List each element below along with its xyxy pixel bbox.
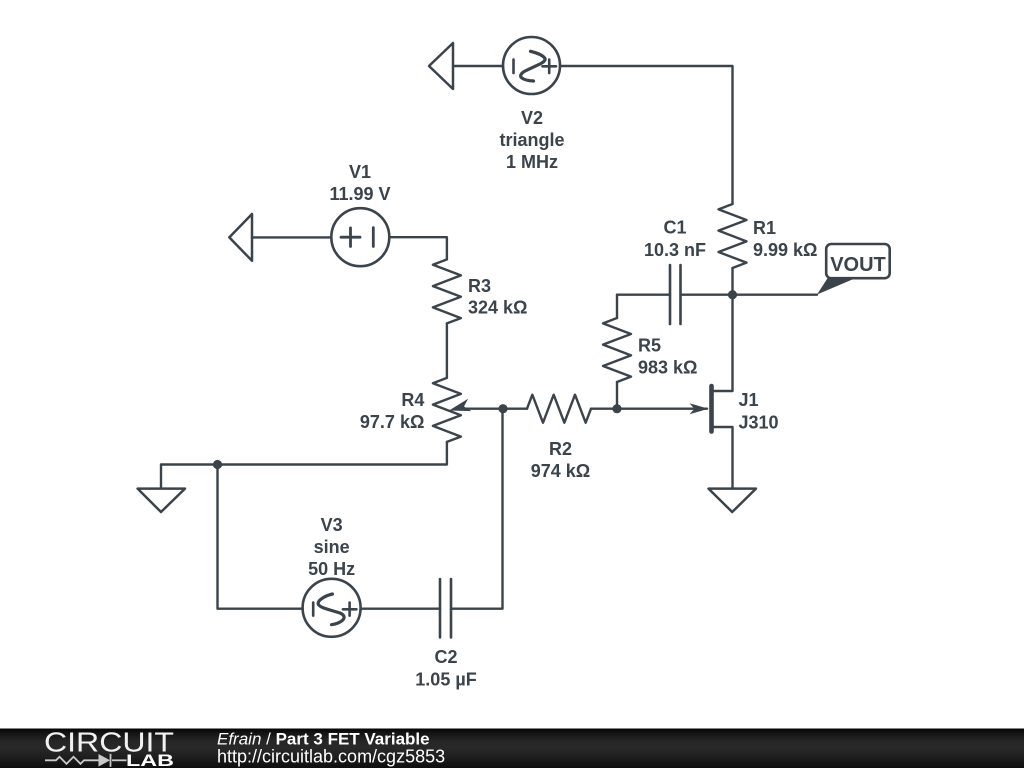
capacitor C1 [670, 265, 681, 324]
svg-text:triangle: triangle [499, 130, 564, 150]
label R1 [753, 218, 817, 260]
svg-text:983 kΩ: 983 kΩ [638, 358, 697, 378]
svg-text:http://circuitlab.com/cgz5853: http://circuitlab.com/cgz5853 [217, 747, 445, 767]
wire C1 left to R5 [616, 295, 618, 318]
resistor R5 [603, 318, 631, 382]
input flag V1 [229, 214, 252, 261]
label J1 [739, 390, 779, 433]
svg-text:C1: C1 [663, 218, 686, 238]
R4 wiper arrowhead [447, 399, 471, 417]
label V1 [329, 162, 390, 204]
svg-text:VOUT: VOUT [830, 254, 886, 276]
ground left [138, 489, 185, 512]
resistor R1 [719, 204, 747, 268]
J1 source lead [713, 427, 733, 489]
svg-text:LAB: LAB [126, 751, 174, 768]
svg-text:J310: J310 [739, 413, 779, 433]
svg-text:1.05 µF: 1.05 µF [415, 669, 476, 689]
svg-text:V3: V3 [321, 515, 343, 535]
wire R5 to gate node [616, 382, 618, 409]
resistor R2 [527, 395, 591, 423]
label V2 [499, 108, 564, 172]
svg-text:R1: R1 [753, 218, 776, 238]
label R3 [468, 276, 527, 318]
wire flag to V1 [252, 236, 331, 238]
VOUT flag box [826, 244, 890, 278]
svg-text:10.3 nF: 10.3 nF [644, 240, 706, 260]
svg-text:V1: V1 [349, 162, 371, 182]
ground under J1 [709, 489, 757, 512]
VOUT tail [817, 278, 854, 295]
wire V2 to R1 top [560, 66, 733, 204]
voltage source V2 circle [503, 37, 560, 94]
svg-text:11.99 V: 11.99 V [329, 184, 390, 204]
junction node at ground rail [213, 460, 222, 469]
svg-text:50 Hz: 50 Hz [308, 559, 355, 579]
wire ground node to V3 [218, 465, 303, 609]
svg-text:9.99 kΩ: 9.99 kΩ [753, 240, 817, 260]
J1 drain lead [713, 295, 733, 391]
JFET J1 channel bar [709, 386, 714, 432]
label R5 [638, 336, 697, 378]
svg-text:J1: J1 [739, 390, 759, 410]
voltage source V1 circle [331, 208, 389, 266]
svg-text:R4: R4 [401, 390, 424, 410]
input flag V2 [429, 43, 453, 89]
label R2 [531, 439, 590, 481]
svg-text:R5: R5 [638, 336, 661, 356]
wire R2 to gate arrow [591, 408, 707, 410]
potentiometer R4 [433, 378, 461, 442]
wire R4 wiper to R2 [462, 408, 527, 410]
wire flag to V2 [453, 65, 503, 67]
svg-text:324 kΩ: 324 kΩ [468, 298, 527, 318]
footer bar [0, 729, 1024, 769]
V1 plus symbol [341, 228, 373, 247]
junction node at R1/C1/VOUT [728, 290, 737, 299]
svg-text:V2: V2 [521, 108, 543, 128]
label C2 [415, 647, 476, 689]
wire C1 left lead [617, 294, 670, 296]
logo resistor-diode line [45, 754, 127, 767]
wire C1 right to VOUT tail [681, 294, 818, 296]
gate arrowhead [690, 403, 709, 414]
junction node at wiper/C2 [498, 404, 507, 413]
svg-text:1 MHz: 1 MHz [506, 152, 558, 172]
label V3 [308, 515, 355, 579]
wire R1 to node VOUT [731, 268, 733, 295]
wire V1 to R3 [389, 237, 447, 259]
svg-text:sine: sine [314, 537, 350, 557]
voltage source V3 circle [303, 579, 361, 637]
label C1 [644, 218, 706, 260]
V2 triangle-wave glyph [514, 51, 557, 81]
wire V3 to C2 [361, 608, 440, 610]
svg-text:R3: R3 [468, 276, 491, 296]
svg-text:974 kΩ: 974 kΩ [531, 461, 590, 481]
resistor R3 [433, 259, 461, 323]
wire R4 bottom to ground rail [161, 442, 447, 489]
logo diode triangle [99, 754, 111, 767]
svg-text:C2: C2 [434, 647, 457, 667]
V3 sine glyph [313, 594, 356, 625]
svg-text:R2: R2 [549, 439, 572, 459]
capacitor C2 [440, 579, 451, 637]
svg-text:97.7 kΩ: 97.7 kΩ [360, 412, 424, 432]
wire C2 to gate node riser [451, 409, 503, 609]
junction node at gate [612, 404, 621, 413]
label R4 [360, 390, 424, 432]
wire R3 to R4 [446, 323, 448, 378]
